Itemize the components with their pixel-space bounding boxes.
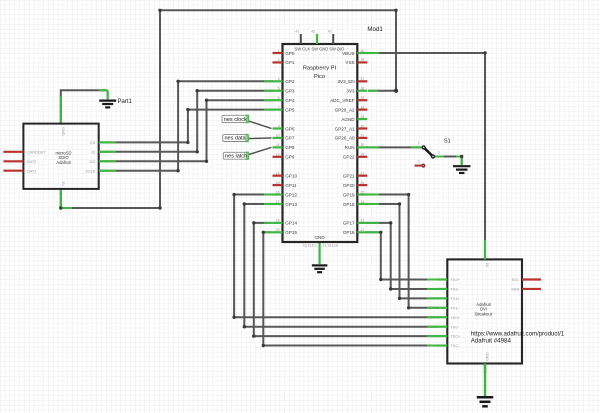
svg-text:GND: GND [485,352,490,361]
junction dot bend GP17 to TX2- a [389,221,392,224]
junction dot bend DO to GP4 b [205,98,208,101]
wire net GP19 to TX1- [366,195,438,308]
svg-text:1: 1 [278,49,280,53]
svg-text:5: 5 [278,87,280,91]
ground (DVI GND) [477,397,494,406]
svg-text:GP0: GP0 [285,51,295,56]
svg-text:GP13: GP13 [285,202,297,207]
wire net GP15 to TXC- [263,232,438,345]
junction dot on Pico 3V3 pin wire at (396,91) [394,89,398,93]
svg-text:22: 22 [361,219,365,223]
svg-text:12: 12 [276,153,280,157]
wire DVI GND pin to ground [484,364,486,397]
junction dot bend DI to GP3 b [196,89,199,92]
svg-text:nes clock: nes clock [224,117,247,123]
svg-text:23,18,13,8: 23,18,13,8 [323,243,339,247]
svg-text:43: 43 [328,30,332,34]
svg-text:GP15: GP15 [285,230,297,235]
junction dot 3V wire bend at (160,10) [158,9,161,12]
svg-text:6: 6 [278,96,280,100]
junction dot bend GP19 to TX1- a [407,193,410,196]
svg-text:Breakout: Breakout [475,312,493,317]
ground (S1) [453,166,471,173]
junction dot bend CS to GP5 b [186,108,189,111]
svg-text:39: 39 [361,58,365,62]
svg-text:GP14: GP14 [285,221,297,226]
wire net GP16 to TX2+ [366,232,438,279]
svg-text:DAT2: DAT2 [27,159,37,164]
ground (Pico GND) [312,265,328,272]
net label nes latch with leader to GP8 [223,147,271,160]
wire net GP18 to TX1+ [366,204,438,298]
svg-text:4: 4 [278,77,280,81]
svg-text:Pico: Pico [314,74,325,80]
wire S1 common contact to ground [435,157,462,165]
junction dot bend GP16 to TX2+ b [379,278,382,281]
svg-text:CS: CS [90,140,96,145]
svg-text:29: 29 [361,153,365,157]
svg-text:7: 7 [278,105,280,109]
svg-text:GND: GND [61,127,66,136]
svg-text:ADC_VREF: ADC_VREF [330,98,355,103]
svg-text:9: 9 [278,124,280,128]
svg-text:GP26_A0: GP26_A0 [335,136,355,141]
svg-text:SCLK: SCLK [85,168,96,173]
svg-text:10: 10 [276,134,280,138]
module Part1 microSD SDIO Adafruit breakout [3,124,108,189]
svg-text:S1: S1 [444,138,451,144]
svg-text:21: 21 [361,228,365,232]
net label nes data with leader to GP7 [223,134,272,143]
label Mod1 [367,26,383,33]
svg-text:DAT1: DAT1 [27,168,37,173]
junction dot 3V wire bend at (60.8,208) [59,206,62,209]
svg-text:3V3: 3V3 [346,89,355,94]
wire net GP13 to TX0- [244,204,438,327]
svg-text:TX1+: TX1+ [450,296,460,301]
svg-text:16: 16 [276,190,280,194]
svg-text:GP2: GP2 [285,79,295,84]
svg-text:GP9: GP9 [285,155,295,160]
wire net microSD SCLK to GP2 [99,81,274,170]
label S1 [444,138,451,144]
svg-text:17: 17 [276,200,280,204]
svg-text:nes data: nes data [225,136,247,142]
svg-text:3: 3 [418,160,420,164]
svg-text:GND: GND [314,235,325,240]
svg-text:2: 2 [278,58,280,62]
svg-text:GP17: GP17 [343,221,355,226]
svg-text:Raspberry PI: Raspberry PI [303,66,337,72]
svg-text:GP22: GP22 [343,155,355,160]
svg-text:27: 27 [361,171,365,175]
wire net VBUS: Pico VBUS pin to DVI 5V pin [366,53,485,251]
net label nes clock with leader to GP6 [222,115,272,129]
wire net 3V3: microSD 3V pin up-loop to Pico 3V3 pin [61,10,396,208]
svg-text:AGND: AGND [341,117,355,122]
junction dot bend SCLK to GP2 a [176,169,179,172]
junction dot bend GP15 to TXC- a [262,231,265,234]
svg-text:https://www.adafruit.com/produ: https://www.adafruit.com/product/1 [471,330,565,337]
wire Pico GND pin to ground [319,242,321,264]
svg-text:GP20: GP20 [343,183,355,188]
junction dot VBUS wire bend at (485,53) [483,51,486,54]
junction dot bend GP13 to TX0- a [243,202,246,205]
svg-text:19: 19 [276,219,280,223]
svg-text:24: 24 [361,200,365,204]
svg-text:GP28_A2: GP28_A2 [335,107,355,112]
junction dot bend GP12 to TX0+ a [232,193,235,196]
junction dot bend SCLK to GP2 b [176,80,179,83]
junction dot bend GP15 to TXC- b [262,344,265,347]
svg-text:26: 26 [361,181,365,185]
svg-text:SDA: SDA [511,287,519,292]
ground Part1 [99,99,132,108]
svg-text:25: 25 [361,190,365,194]
svg-text:RUN: RUN [345,145,355,150]
svg-text:GP5: GP5 [285,107,295,112]
wire net GP17 to TX2- [366,223,438,289]
svg-text:3V3_EN: 3V3_EN [337,79,354,84]
junction dot bend GP14 to TXC+ a [252,221,255,224]
svg-text:SW CLK SW GND SW DIO: SW CLK SW GND SW DIO [295,47,345,52]
label Adafruit product URL [471,330,565,344]
svg-text:3V: 3V [61,181,66,186]
junction dot 3V wire bend at (396,10) [394,9,397,12]
svg-text:TXC-: TXC- [450,343,460,348]
svg-text:37: 37 [361,77,365,81]
svg-text:GP19: GP19 [343,192,355,197]
svg-text:TX1-: TX1- [450,305,459,310]
junction dot bend CS to GP5 a [186,141,189,144]
switch S1 SPDT [415,141,440,167]
module Adafruit DVI Breakout #4984 [437,249,541,373]
junction dot bend GP18 to TX1+ b [398,297,401,300]
junction dot bend GP16 to TX2+ a [379,231,382,234]
svg-text:2: 2 [438,151,440,155]
svg-text:33: 33 [361,115,365,119]
svg-text:GP21: GP21 [343,173,355,178]
wire net RUN: Pico RUN pin to switch S1 pole [366,146,421,148]
svg-text:5V: 5V [485,263,490,268]
svg-text:GP6: GP6 [285,126,295,131]
svg-text:GP27_A1: GP27_A1 [335,126,355,131]
wire net GP14 to TXC+ [254,223,438,336]
svg-text:CARDDET: CARDDET [27,149,46,154]
svg-text:DO: DO [90,159,96,164]
junction dot bend GP19 to TX1- b [407,306,410,309]
svg-text:34: 34 [361,105,365,109]
svg-text:GP1: GP1 [285,60,295,65]
svg-text:20: 20 [276,228,280,232]
svg-text:Adafruit: Adafruit [56,160,71,165]
svg-text:TX0+: TX0+ [450,315,460,320]
wire net GP12 to TX0+ [234,195,438,318]
wire net microSD CS to GP5 [99,110,274,143]
svg-text:Part1: Part1 [118,99,133,105]
svg-text:TX2-: TX2- [450,287,459,292]
svg-text:GP10: GP10 [285,173,297,178]
junction dot bend GP12 to TX0+ b [232,316,235,319]
svg-text:TXC+: TXC+ [450,334,461,339]
svg-text:DI: DI [91,149,95,154]
svg-text:14: 14 [276,171,280,175]
svg-text:TX0-: TX0- [450,324,459,329]
svg-text:GP4: GP4 [285,98,295,103]
svg-text:36: 36 [361,87,365,91]
svg-text:18,13,8,3: 18,13,8,3 [303,243,317,247]
junction dot bend DO to GP4 a [205,160,208,163]
svg-text:32: 32 [361,124,365,128]
svg-text:GP11: GP11 [285,183,297,188]
junction dot bend GP14 to TXC+ b [252,334,255,337]
svg-text:31: 31 [361,134,365,138]
wire net microSD DI to GP3 [99,91,274,152]
svg-text:VSS: VSS [345,60,354,65]
svg-text:41: 41 [295,30,299,34]
svg-text:1: 1 [418,141,420,145]
svg-text:GP7: GP7 [285,136,295,141]
svg-text:nes latch: nes latch [225,153,247,159]
svg-text:GP18: GP18 [343,202,355,207]
wire microSD GND pin to ground Part1 [61,90,108,124]
svg-text:Mod1: Mod1 [367,26,383,33]
svg-text:15: 15 [276,181,280,185]
junction dot bend GP13 to TX0- b [243,325,246,328]
svg-text:GP8: GP8 [285,145,295,150]
module Mod1 Raspberry Pi Pico [273,30,368,248]
svg-text:35: 35 [361,96,365,100]
svg-text:Adafruit #4984: Adafruit #4984 [471,338,512,345]
svg-text:SCL: SCL [512,277,520,282]
svg-text:30: 30 [361,143,365,147]
junction dot bend GP17 to TX2- b [389,287,392,290]
svg-text:GP16: GP16 [343,230,355,235]
svg-text:40: 40 [361,49,365,53]
junction dot S1 wire bend [460,155,463,158]
svg-text:11: 11 [276,143,280,147]
junction dot 3V wire bend at (160,208) [158,206,161,209]
svg-text:GP3: GP3 [285,89,295,94]
wire net microSD DO to GP4 [99,100,274,161]
junction dot bend DI to GP3 a [196,150,199,153]
svg-text:42: 42 [311,30,315,34]
junction dot bend GP18 to TX1+ a [398,202,401,205]
svg-text:TX2+: TX2+ [450,277,460,282]
svg-text:GP12: GP12 [285,192,297,197]
